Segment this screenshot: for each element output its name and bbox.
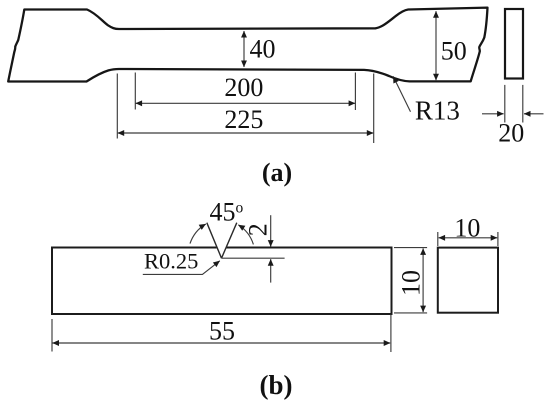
svg-text:20: 20 — [498, 119, 524, 148]
extension line 55 left — [51, 319, 53, 352]
dimension 40 line — [243, 31, 245, 67]
dimension 55 line — [53, 342, 391, 344]
svg-text:2: 2 — [244, 223, 273, 236]
svg-text:(b): (b) — [260, 370, 293, 400]
dimension 20 arrow right — [524, 113, 544, 115]
charpy bar outline with notch gap (figure b) — [52, 248, 392, 315]
dimension 200 line — [136, 102, 356, 104]
extension line 225 right — [373, 74, 375, 144]
extension line 200 right — [354, 73, 356, 111]
square cross-section (figure b) — [438, 248, 498, 313]
svg-text:10: 10 — [454, 213, 480, 242]
dimension 225 line — [118, 132, 374, 134]
notch right flank — [222, 223, 237, 259]
svg-text:45o: 45o — [210, 198, 244, 227]
extension line square left — [437, 232, 439, 246]
svg-text:55: 55 — [209, 317, 235, 346]
extension line square right — [497, 232, 499, 246]
dog-bone specimen outline (figure a) — [8, 8, 487, 82]
leader line R0.25 — [143, 261, 220, 275]
angle arc left — [190, 224, 206, 244]
notch root level line — [222, 257, 285, 259]
dimension 2 arrow upper — [270, 215, 272, 246]
angle arc right — [238, 225, 253, 245]
leader line R13 — [393, 76, 410, 111]
side view plate (thickness view, figure a) — [505, 9, 523, 79]
svg-text:(a): (a) — [262, 158, 292, 187]
extension line 20 left — [504, 85, 506, 123]
extension line 200 left — [134, 73, 136, 110]
svg-text:50: 50 — [441, 36, 467, 65]
svg-text:225: 225 — [224, 105, 263, 134]
svg-text:10: 10 — [397, 270, 426, 296]
extension line 20 right — [522, 85, 524, 123]
dimension 10 square line — [439, 237, 498, 239]
dimension 20 arrow left — [482, 113, 504, 115]
dimension 50 line — [435, 11, 437, 80]
extension line bar height bottom — [394, 312, 427, 314]
dimension 10 bar height line — [422, 248, 424, 312]
svg-text:R0.25: R0.25 — [144, 248, 198, 273]
dimension 2 arrow lower — [270, 259, 272, 282]
extension line bar height top — [394, 247, 427, 249]
svg-text:200: 200 — [224, 73, 263, 102]
extension line 225 left — [116, 74, 118, 139]
notch left flank — [207, 223, 222, 259]
svg-text:40: 40 — [250, 35, 276, 64]
svg-text:R13: R13 — [415, 95, 460, 125]
extension line 55 right — [390, 315, 392, 353]
